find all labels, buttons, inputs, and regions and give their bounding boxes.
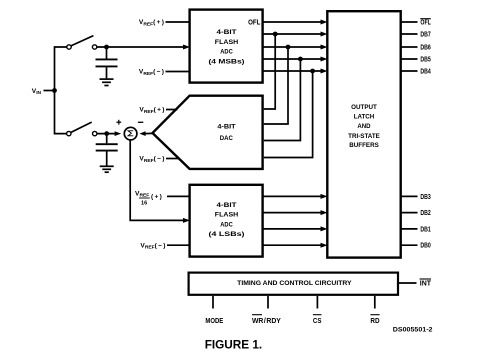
switch S1: [67, 45, 97, 49]
label minus: [138, 121, 143, 123]
ground GND2: [100, 166, 114, 172]
svg-text:DB4: DB4: [420, 69, 431, 76]
wire LSB row DB2 to latch: [263, 212, 321, 214]
svg-text:CS: CS: [313, 317, 322, 325]
wire VIN tick: [44, 90, 55, 92]
svg-text:FLASH: FLASH: [215, 39, 238, 46]
wire VREF+ to DAC: [166, 109, 178, 111]
4-bit flash ADC (4 MSBs) block: [190, 10, 263, 83]
wire output stub DB1: [401, 228, 418, 230]
wire tap to DAC input 2: [264, 47, 288, 124]
node tap 3: [298, 57, 303, 62]
output latch and tri-state buffers block: [327, 11, 400, 257]
wire tap to DAC input 4: [264, 71, 313, 158]
svg-text:FLASH: FLASH: [215, 212, 238, 219]
wire output stub DB3: [401, 195, 418, 197]
svg-text:DB6: DB6: [420, 45, 431, 52]
wire left vertical: [55, 47, 68, 134]
capacitor C1: [96, 47, 118, 78]
wire output stub OFL: [401, 21, 418, 23]
svg-text:FIGURE 1.: FIGURE 1.: [205, 338, 263, 352]
switch S2: [67, 131, 97, 135]
summing junction U1: [124, 127, 137, 140]
ground GND1: [100, 79, 114, 85]
node tap 2: [286, 45, 291, 50]
svg-text:16: 16: [141, 200, 147, 206]
svg-text:4-BIT: 4-BIT: [217, 29, 238, 36]
svg-text:OUTPUT: OUTPUT: [351, 104, 378, 111]
wire tap to DAC input 3: [264, 59, 301, 141]
svg-text:(4 MSBs): (4 MSBs): [209, 58, 245, 65]
wire S1 to MSB ADC input: [97, 46, 184, 48]
capacitor C2: [96, 134, 118, 166]
wire S2 to summing junction: [97, 133, 115, 135]
4-bit DAC block: [153, 96, 263, 169]
wire output stub DB6: [401, 46, 418, 48]
svg-text:DAC: DAC: [220, 135, 233, 142]
node VIN junction: [52, 88, 57, 93]
wire output stub DB4: [401, 70, 418, 72]
wire VREF/16 to LSB: [167, 195, 189, 197]
svg-text:ADC: ADC: [220, 49, 233, 56]
wire VREF- to DAC: [166, 158, 179, 160]
label VREF/16(+): [135, 190, 162, 206]
wire pin RD: [374, 296, 376, 309]
wire LSB row DB3 to latch: [263, 195, 321, 197]
wire MSB row OFL to latch: [263, 21, 321, 23]
wire MSB row DB6 tap to latch: [263, 46, 321, 48]
svg-text:AND: AND: [357, 123, 370, 130]
svg-text:INT: INT: [420, 281, 432, 288]
wire pin MODE: [212, 296, 214, 309]
wire DAC output to summing junction: [145, 132, 153, 134]
svg-text:( + ): ( + ): [151, 194, 162, 201]
label plus: [116, 120, 121, 125]
svg-text:4-BIT: 4-BIT: [217, 202, 238, 209]
wire output stub DB2: [401, 212, 418, 214]
node tap 1: [273, 32, 278, 37]
svg-text:OFL: OFL: [420, 20, 430, 27]
4-bit flash ADC (4 LSBs) block: [190, 185, 263, 257]
svg-text:DB3: DB3: [420, 194, 431, 201]
svg-text:DB7: DB7: [420, 32, 431, 39]
svg-text:LATCH: LATCH: [354, 114, 375, 121]
svg-text:RD: RD: [370, 317, 379, 325]
wire LSB row DB1 to latch: [263, 228, 321, 230]
node tap 4: [310, 69, 315, 74]
node C1 tap: [104, 45, 109, 50]
wire summing junction to LSB ADC input: [130, 140, 183, 221]
timing and control circuitry block: [189, 273, 398, 295]
svg-text:(4 LSBs): (4 LSBs): [209, 231, 245, 238]
wire output stub DB7: [401, 33, 418, 35]
svg-text:ADC: ADC: [220, 222, 233, 229]
wire VREF- to MSB: [166, 71, 189, 73]
wire output stub DB5: [401, 58, 418, 60]
svg-text:DB0: DB0: [420, 243, 431, 250]
svg-text:REF: REF: [140, 192, 150, 198]
wire INT stub: [399, 282, 417, 284]
svg-text:BUFFERS: BUFFERS: [349, 142, 379, 149]
wire pin CS: [316, 296, 318, 309]
wire MSB row DB5 tap to latch: [263, 58, 321, 60]
svg-text:TIMING AND CONTROL CIRCUITRY: TIMING AND CONTROL CIRCUITRY: [237, 280, 352, 287]
svg-text:MODE: MODE: [205, 317, 223, 325]
svg-text:WR / RDY: WR / RDY: [252, 317, 281, 325]
wire VREF+ to MSB: [166, 21, 189, 23]
wire pin WR/RDY: [267, 296, 269, 309]
svg-text:TRI-STATE: TRI-STATE: [348, 133, 380, 140]
svg-text:DB1: DB1: [420, 226, 431, 233]
wire output stub DB0: [401, 244, 418, 246]
wire VREF- to LSB: [167, 244, 189, 246]
svg-text:DS005501-2: DS005501-2: [393, 327, 433, 334]
wire LSB row DB0 to latch: [263, 244, 321, 246]
node C2 tap: [104, 131, 109, 136]
svg-text:OFL: OFL: [248, 20, 260, 27]
wire MSB row DB7 tap to latch: [263, 33, 321, 35]
wire tap to DAC input 1: [264, 34, 275, 109]
svg-text:DB2: DB2: [420, 210, 431, 217]
svg-text:DB5: DB5: [420, 57, 431, 64]
svg-text:4-BIT: 4-BIT: [217, 124, 236, 131]
wire MSB row DB4 tap to latch: [263, 70, 321, 72]
